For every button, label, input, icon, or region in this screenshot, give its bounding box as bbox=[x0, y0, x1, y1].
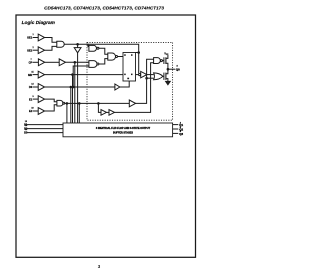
wire MR input bbox=[33, 74, 39, 76]
buffer G9 (D0 delay) bbox=[115, 84, 120, 90]
wire E vertical bus bbox=[66, 103, 68, 123]
transistor Q1 PMOS bbox=[163, 57, 165, 64]
wire Q3 out bbox=[173, 132, 179, 134]
wire D1 bbox=[27, 124, 63, 126]
AND gate G3 (output enable) bbox=[57, 41, 64, 47]
wire bbox=[107, 111, 110, 113]
wire D2 bbox=[27, 128, 63, 130]
wire MR to FF bbox=[45, 74, 123, 76]
svg-text:2: 2 bbox=[32, 47, 34, 49]
inverter G2 (OE2) bbox=[38, 47, 44, 54]
wire bbox=[45, 61, 60, 63]
wire Ebar to riser bbox=[115, 63, 154, 113]
pin 10 label E2 bbox=[29, 108, 34, 114]
buffer G4 down (EO) bbox=[74, 48, 81, 53]
svg-text:3 IDENTICAL FLIP-FLOP AND 3-ST: 3 IDENTICAL FLIP-FLOP AND 3-STATE OUTPUT bbox=[96, 127, 151, 130]
svg-text:9: 9 bbox=[32, 96, 34, 98]
node EO junction bbox=[77, 44, 79, 46]
wire Q0 out bbox=[168, 68, 175, 70]
NAND gate G17 bbox=[89, 61, 97, 68]
wire E to riser bbox=[135, 59, 153, 103]
wire G17 out bbox=[99, 59, 108, 64]
wire EO bbox=[64, 44, 89, 46]
wire CP to gate bbox=[66, 61, 89, 63]
pin 9 label E1 bbox=[29, 96, 34, 102]
svg-text:OE2: OE2 bbox=[27, 48, 33, 52]
wire G1 out bbox=[45, 38, 57, 43]
node D0 to NAND2 bbox=[72, 86, 74, 88]
wire CP input bbox=[33, 61, 39, 63]
NAND gate G16 bbox=[89, 45, 97, 51]
pin 1 label OE1 bbox=[27, 34, 34, 40]
pin 12 label D2 bbox=[24, 125, 28, 131]
wire D0 bbox=[45, 86, 115, 88]
inverter G10 (E1) bbox=[38, 96, 44, 103]
flip-flop FF1 bbox=[123, 53, 136, 82]
pin 3 label Q0 bbox=[176, 65, 180, 71]
wire G9 to FF bottom bbox=[120, 81, 129, 87]
svg-text:E2: E2 bbox=[29, 109, 33, 113]
wire OE1 input bbox=[33, 37, 39, 39]
svg-text:MR: MR bbox=[28, 73, 32, 77]
pin 15 label MR bbox=[28, 71, 34, 77]
buffer G5 (CP) bbox=[38, 59, 44, 66]
svg-text:BUFFER STAGES: BUFFER STAGES bbox=[113, 132, 133, 135]
pin 7 label CP bbox=[29, 59, 33, 65]
inverter G7 (MR) bbox=[38, 71, 44, 78]
svg-text:1: 1 bbox=[32, 34, 34, 36]
svg-text:CD54HC173, CD74HC173, CD54HCT1: CD54HC173, CD74HC173, CD54HCT173, CD74HC… bbox=[44, 6, 164, 11]
wire G20 to PMOS bbox=[162, 60, 164, 62]
inverter G11 (E2) bbox=[38, 108, 44, 115]
wire E2 to gate bbox=[45, 105, 57, 111]
svg-text:Logic Diagram: Logic Diagram bbox=[22, 20, 56, 26]
page frame bbox=[16, 15, 196, 257]
pin 11 label D3 bbox=[24, 129, 28, 135]
NAND gate G20 (output stage top) bbox=[154, 58, 161, 64]
wire MR vertical bus bbox=[72, 75, 74, 123]
wire E bus 2 bbox=[79, 103, 81, 105]
svg-text:CP: CP bbox=[29, 61, 33, 65]
wire G18 to FF bbox=[118, 56, 124, 58]
svg-text:Q3: Q3 bbox=[179, 132, 183, 136]
inverter G8 (D0) bbox=[38, 84, 44, 91]
svg-text:D0: D0 bbox=[29, 85, 33, 89]
node E branch bbox=[98, 103, 100, 105]
svg-text:13: 13 bbox=[25, 121, 28, 123]
buffer G14 bbox=[109, 110, 115, 116]
wire Q1 out bbox=[173, 124, 179, 126]
node CP bus junction bbox=[74, 62, 76, 64]
wire D0 vertical bus bbox=[70, 87, 72, 123]
buffer G13 bbox=[101, 110, 107, 116]
inverter G19 (Qbar) bbox=[139, 74, 141, 76]
node E bus junction bbox=[66, 103, 68, 105]
buffer G15 (E) bbox=[129, 100, 135, 107]
wire G2 out bbox=[45, 46, 57, 50]
NAND gate G12 (E enable) bbox=[57, 100, 63, 106]
wire D3 bbox=[27, 132, 63, 134]
transistor Q2 NMOS bbox=[163, 73, 165, 80]
NOR gate G21 (output stage bottom) bbox=[154, 73, 163, 80]
wire EO vertical bus bbox=[77, 53, 79, 123]
wire E line bbox=[65, 102, 130, 104]
box: 3 identical stages bbox=[63, 123, 173, 137]
pin 13 label D1 bbox=[24, 121, 28, 127]
wire G21 to NMOS bbox=[163, 75, 164, 77]
wire CP vertical bus bbox=[74, 62, 76, 123]
wire D0 input bbox=[33, 86, 39, 88]
wire NOR lower input tap bbox=[146, 77, 148, 79]
pin 14 label D0 bbox=[29, 84, 35, 90]
pin 6 label Q3 bbox=[179, 131, 183, 136]
wire D0 branch to NAND2 bbox=[73, 66, 89, 87]
ground bbox=[166, 81, 171, 84]
node MR bus junction bbox=[72, 74, 74, 76]
svg-text:3: 3 bbox=[98, 264, 101, 269]
wire E1 input bbox=[33, 98, 39, 100]
wire FF Q to inverter bbox=[136, 74, 139, 76]
inverter G1 (OE1) bbox=[38, 34, 44, 41]
wire G16 out bbox=[99, 48, 108, 54]
pin 5 label Q2 bbox=[179, 127, 183, 132]
wire G19 to NOR bbox=[147, 74, 154, 76]
pin 2 label OE2 bbox=[27, 47, 34, 53]
wire E1 to gate bbox=[45, 99, 57, 102]
wire E branch down bbox=[98, 103, 101, 112]
wire OE2 input bbox=[33, 49, 39, 51]
node output bbox=[167, 68, 169, 70]
svg-text:Q0: Q0 bbox=[176, 68, 180, 72]
wire E2 input bbox=[33, 110, 39, 112]
svg-text:E1: E1 bbox=[29, 97, 33, 101]
svg-text:VCC: VCC bbox=[164, 54, 169, 56]
node D0 bus junction bbox=[70, 86, 72, 88]
pin 4 label Q1 bbox=[179, 122, 183, 127]
svg-text:OE1: OE1 bbox=[27, 36, 33, 40]
NAND gate G18 bbox=[108, 53, 116, 60]
buffer G6 (CP second) bbox=[59, 59, 65, 66]
wire Q2 out bbox=[173, 128, 179, 130]
wire Q feedback top bbox=[88, 44, 139, 73]
dashed box (one of four stages) bbox=[87, 42, 173, 120]
